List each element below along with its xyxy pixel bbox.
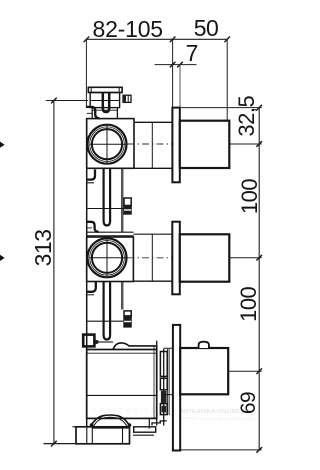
neck2 top <box>133 233 172 235</box>
mid1 boss line <box>87 208 124 210</box>
mid2 boss line <box>87 320 124 322</box>
cartridge inner line bottom <box>87 394 157 396</box>
pipe2 <box>104 282 111 340</box>
top fitting bar <box>88 87 122 92</box>
circle1 inner <box>92 129 122 159</box>
screw1 thread <box>124 209 131 211</box>
step line mid1 <box>87 182 94 184</box>
neck2 bottom <box>133 280 172 282</box>
extension line plate1 top <box>180 107 262 109</box>
extension line wall back <box>172 39 174 107</box>
fitting neck left <box>91 108 93 119</box>
step line mid2 <box>87 294 94 296</box>
top nipple <box>123 95 131 102</box>
dim line right <box>256 105 262 453</box>
cartridge main box <box>87 350 157 419</box>
cartridge top bump <box>113 343 157 350</box>
plate3 <box>173 325 180 451</box>
extension line bottom <box>44 443 130 445</box>
circle2 mid <box>90 240 125 275</box>
dim line left 313 <box>51 98 57 447</box>
extension line center1 right <box>230 143 262 145</box>
circle2 inner <box>92 243 122 273</box>
dome arc outer <box>91 415 130 426</box>
screw2 cap <box>124 311 131 316</box>
top fitting slot <box>103 93 109 113</box>
fitting neck right <box>116 108 118 119</box>
bracket inner line 2 <box>87 227 92 229</box>
cartridge right column <box>157 341 164 426</box>
extension line right end top <box>226 39 228 120</box>
circle1 mid <box>90 127 125 162</box>
dome base bar <box>92 426 129 429</box>
bracket inner line <box>87 112 93 114</box>
extension line center3 right <box>228 370 262 372</box>
svg-text:7: 7 <box>186 40 199 66</box>
bracket above square2 <box>86 222 99 232</box>
cartridge lower right edge <box>148 418 150 428</box>
cartridge inner line top <box>87 352 157 354</box>
lug connect line <box>99 341 113 343</box>
cartridge bottom-right step <box>152 421 167 426</box>
circle2 outer <box>88 238 127 277</box>
box3 <box>180 348 228 394</box>
flow arrow 2 <box>0 255 5 261</box>
svg-text:SANTEHNIKA: SANTEHNIKA <box>92 408 158 415</box>
dome dot left <box>90 423 94 427</box>
mounting box inner verticals <box>87 427 123 444</box>
cartridge right inner line <box>153 346 155 419</box>
dim line 7 <box>155 62 197 68</box>
body left edge <box>86 119 88 427</box>
stack dark 2 <box>162 406 167 413</box>
stack rect 3 <box>160 404 167 415</box>
screw1 body <box>123 206 132 215</box>
lug above cartridge <box>83 335 94 347</box>
fitting step line <box>92 109 117 111</box>
extension line top left <box>46 100 88 102</box>
neck1 vertical <box>151 122 153 168</box>
neck3 lines <box>164 348 173 394</box>
mid1 right wall <box>122 169 123 232</box>
svg-text:313: 313 <box>30 229 56 266</box>
svg-text:69: 69 <box>237 392 260 414</box>
screw2 body <box>123 316 132 328</box>
foot bar <box>134 427 156 432</box>
dome arc inner <box>93 417 127 426</box>
stack double line <box>167 349 169 415</box>
square1 <box>87 119 134 169</box>
stack rect 1 <box>160 352 167 377</box>
pipe1 <box>104 168 111 225</box>
svg-text:32,5: 32,5 <box>234 96 259 137</box>
circle1 outer <box>88 125 127 164</box>
stack dark 1 <box>161 391 167 403</box>
extension line body front top <box>85 39 87 108</box>
lug wedge <box>95 339 99 344</box>
extension line bottom right <box>180 449 262 451</box>
mid2 right wall <box>122 282 123 310</box>
svg-text:INTERNET MAGAZIN SANTEHNIKI: INTERNET MAGAZIN SANTEHNIKI <box>174 416 255 421</box>
center line 1 <box>128 143 172 145</box>
square2 <box>87 237 134 282</box>
mounting box top ext <box>73 426 77 428</box>
box3 knob <box>199 342 209 348</box>
svg-text:50: 50 <box>194 15 219 41</box>
center line 2 <box>128 257 172 259</box>
circle1 crosshair <box>90 126 126 163</box>
svg-text:100: 100 <box>237 179 262 214</box>
foot bar lower line <box>133 434 154 436</box>
box1 <box>180 121 230 168</box>
bracket below square2 <box>86 281 96 291</box>
plate1 <box>172 108 179 183</box>
neck1 bottom <box>134 167 172 169</box>
extension line center2 right <box>230 257 262 259</box>
dim line top <box>84 37 230 43</box>
screw2 thread <box>124 321 131 323</box>
plate2 <box>172 222 180 295</box>
neck2 vertical <box>151 234 153 281</box>
flow arrow 1 <box>0 142 5 148</box>
neck1 top <box>134 121 172 123</box>
top fitting body <box>90 93 119 108</box>
box2 <box>180 234 230 281</box>
bracket above circle1 <box>86 107 100 119</box>
extension line plate front <box>179 65 181 108</box>
bracket below square1 <box>86 169 95 179</box>
mounting box <box>76 427 130 444</box>
stack rect 2 <box>160 378 167 390</box>
svg-text:100: 100 <box>236 286 261 321</box>
dome dot right <box>128 423 132 427</box>
circle2 crosshair <box>90 239 126 276</box>
top nipple hatch <box>124 96 126 102</box>
top fitting bar caps <box>91 87 119 92</box>
svg-text:82-105: 82-105 <box>92 16 162 42</box>
top fitting inner line <box>90 100 119 102</box>
shelf lines above square2 <box>87 232 134 236</box>
screw1 cap <box>124 198 131 206</box>
